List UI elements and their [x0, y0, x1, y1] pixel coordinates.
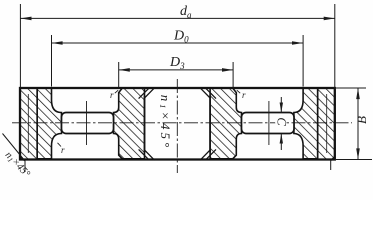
bore chamfer bottom-right	[200, 150, 210, 160]
hatched hub section left	[114, 88, 145, 159]
da extension line right	[334, 4, 336, 88]
body outline	[20, 88, 335, 160]
bore chamfer bottom-left	[145, 150, 155, 160]
rim seam line right	[326, 94, 328, 153]
svg-text:B: B	[354, 116, 369, 124]
outer edge chamfer bottom-left	[20, 156, 25, 161]
svg-text:r: r	[242, 90, 246, 100]
D0 extension line right	[302, 35, 304, 87]
svg-text:D3: D3	[169, 55, 185, 71]
chamfer extension tick bottom-right	[330, 161, 332, 171]
drive slot right	[242, 113, 295, 134]
B extension top	[336, 87, 366, 89]
C dimension arrows	[280, 97, 282, 113]
da extension line left	[19, 4, 21, 88]
outer edge chamfer bottom-right	[331, 156, 336, 161]
slot centre mark right	[268, 101, 270, 145]
outer chamfer leader	[3, 134, 26, 162]
svg-text:D0: D0	[173, 29, 189, 45]
hatched rim section right	[318, 88, 335, 160]
da dimension line	[20, 17, 334, 19]
bore chamfer top-left	[145, 88, 155, 98]
hatched rim section left	[20, 88, 37, 160]
svg-text:n1×45°: n1×45°	[158, 95, 173, 150]
vertical centreline (axis)	[176, 79, 178, 173]
D0 extension line left	[51, 35, 53, 87]
r leader bottom-left	[58, 143, 62, 147]
svg-text:C: C	[275, 117, 289, 126]
r leader top-right	[237, 90, 240, 93]
D3 extension line right	[232, 62, 234, 88]
hatched hub section right	[210, 88, 241, 159]
D3 extension line left	[118, 62, 120, 88]
rim seam line left	[27, 94, 29, 153]
svg-text:da: da	[180, 4, 192, 20]
svg-text:r: r	[110, 90, 114, 100]
drive slot left	[62, 113, 114, 134]
bore wall left	[144, 96, 146, 153]
B extension bottom	[336, 159, 372, 161]
bore chamfer top-right	[200, 88, 210, 98]
D3 dimension line	[119, 69, 233, 71]
svg-text:r: r	[61, 145, 65, 155]
hatched web section right	[294, 88, 318, 159]
slot centre mark left	[86, 101, 88, 145]
horizontal centreline	[12, 122, 352, 124]
r leader top-left	[115, 90, 118, 93]
bore wall right	[209, 96, 211, 153]
label C backing	[275, 116, 286, 127]
hatched web section left	[37, 88, 61, 159]
B dimension line	[357, 88, 359, 160]
D0 dimension line	[52, 42, 304, 44]
